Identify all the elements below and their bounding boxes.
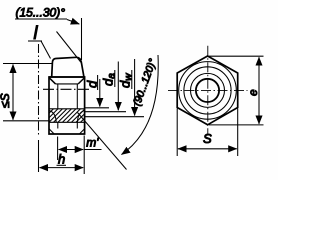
- face line right: [76, 84, 78, 109]
- top chamfer line across faces: [56, 83, 79, 85]
- svg-text:h: h: [58, 151, 65, 166]
- hatched insert band: [49, 109, 85, 123]
- angle leg vertical: [81, 18, 83, 60]
- band corner chamfer arc left: [49, 111, 56, 123]
- left dimension extension bottom: [3, 120, 49, 122]
- thread major circle: [191, 73, 225, 107]
- h dimension: [39, 140, 84, 172]
- vertical centerline: [207, 46, 209, 136]
- bore circle: [196, 79, 219, 102]
- svg-text:d: d: [84, 80, 99, 88]
- hexagon: [177, 56, 238, 125]
- crown circle: [184, 67, 231, 114]
- m-prime dimension: [58, 136, 102, 175]
- angle leg sloped: [57, 32, 82, 64]
- angle label (15...30)°: [15, 6, 79, 25]
- band corner chamfer arc right: [77, 111, 84, 123]
- crown outline: [52, 57, 84, 77]
- countersink angle arc: [122, 55, 159, 155]
- face line left lower: [57, 122, 59, 128]
- datum dash-dot line: [38, 44, 40, 137]
- leader d_w: [85, 59, 144, 117]
- S dimension: [177, 109, 238, 157]
- hex top face line: [49, 76, 85, 78]
- label l: [28, 23, 51, 59]
- internal boundary dash line: [43, 88, 91, 90]
- e dimension: [209, 56, 264, 125]
- left dimension line: [12, 65, 14, 120]
- horizontal centerline: [168, 89, 248, 91]
- bottom chamfer wedge left: [49, 129, 54, 134]
- leader d: [84, 75, 109, 108]
- svg-text:(15...30)°: (15...30)°: [16, 6, 66, 20]
- face line left: [57, 84, 59, 109]
- svg-text:e: e: [246, 89, 260, 96]
- chamfer circle: [179, 62, 237, 120]
- bottom chamfer wedge right: [79, 129, 84, 134]
- countersink leg diagonal: [78, 113, 127, 170]
- face line right lower: [76, 122, 78, 128]
- hex body outline: [49, 77, 85, 134]
- svg-text:l: l: [34, 23, 39, 43]
- top chamfer diagonal right: [78, 78, 84, 84]
- left dimension extension top: [3, 63, 52, 65]
- leader d_a: [85, 62, 126, 112]
- top chamfer diagonal left: [49, 78, 56, 84]
- svg-text:≤S: ≤S: [0, 93, 12, 108]
- svg-text:m': m': [86, 136, 99, 150]
- svg-text:S: S: [203, 131, 212, 146]
